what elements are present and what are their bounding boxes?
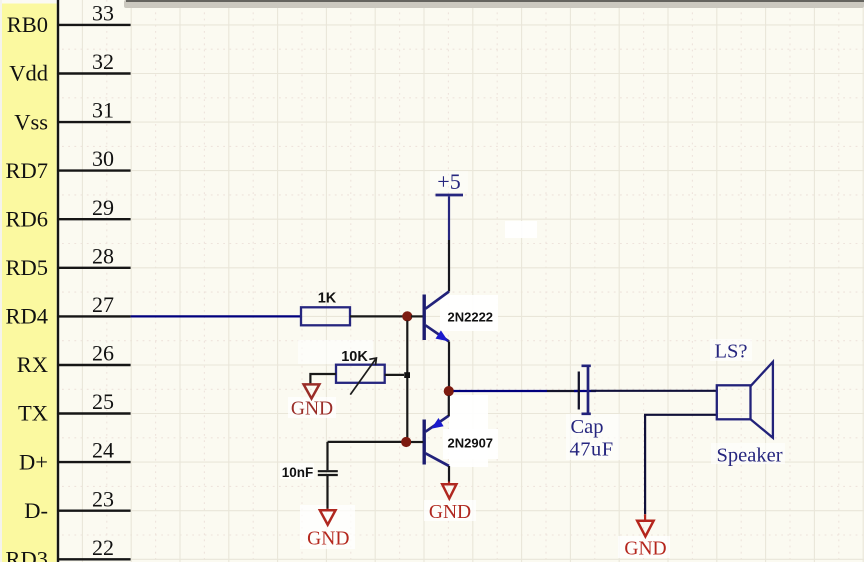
- svg-text:32: 32: [92, 49, 114, 74]
- pin 22 RD3: [5, 535, 130, 562]
- wire under C1 plates: [574, 390, 596, 392]
- IC U1 right border: [57, 0, 59, 562]
- ground GND (C2): [307, 509, 349, 550]
- svg-text:RD7: RD7: [5, 158, 48, 183]
- svg-text:RD5: RD5: [5, 255, 48, 280]
- svg-text:GND: GND: [291, 398, 333, 419]
- wire (lower segment, black): [448, 240, 450, 292]
- svg-text:+5: +5: [437, 169, 460, 194]
- svg-text:RX: RX: [17, 352, 48, 377]
- svg-text:23: 23: [92, 486, 114, 511]
- svg-text:LS?: LS?: [715, 340, 748, 362]
- svg-text:25: 25: [92, 389, 114, 414]
- svg-text:1K: 1K: [318, 291, 337, 307]
- capacitor C1 (Cap 47uF): [579, 366, 591, 414]
- resistor R1 body: [301, 307, 350, 325]
- capacitor C2 10nF: [318, 442, 338, 509]
- svg-text:10K: 10K: [341, 349, 368, 365]
- speaker LS1 symbol: [717, 362, 773, 438]
- pin 33 RB0: [7, 1, 131, 38]
- svg-text:Vss: Vss: [14, 109, 48, 134]
- svg-text:24: 24: [92, 438, 114, 463]
- ground GND (R2): [291, 384, 333, 419]
- IC U1 body (yellow): [2, 4, 57, 562]
- wire R2 left to GND: [310, 374, 336, 384]
- pin 28 RD5: [5, 243, 130, 280]
- svg-text:47uF: 47uF: [570, 438, 614, 460]
- wire node C to capacitor C1: [454, 390, 548, 392]
- pin 23 D-: [24, 486, 130, 523]
- wire node A down to node B (base link): [406, 321, 408, 439]
- wire RD4 pin to R1: [131, 315, 301, 317]
- svg-text:30: 30: [92, 146, 114, 171]
- ground GND (speaker): [624, 514, 666, 559]
- svg-text:GND: GND: [307, 528, 349, 549]
- wire +5 to Q1 collector: [448, 196, 450, 240]
- svg-text:RB0: RB0: [7, 12, 48, 37]
- white erase patches: [280, 171, 785, 558]
- resistor R2 10K (variable): [336, 358, 385, 395]
- svg-text:GND: GND: [429, 502, 471, 523]
- wire R2 right to junction square: [385, 374, 404, 376]
- pin 29 RD6: [5, 195, 130, 232]
- svg-text:33: 33: [92, 1, 114, 26]
- svg-text:Cap: Cap: [571, 416, 604, 438]
- svg-text:Speaker: Speaker: [717, 444, 783, 466]
- svg-text:10nF: 10nF: [282, 465, 314, 480]
- svg-text:28: 28: [92, 243, 114, 268]
- svg-text:26: 26: [92, 341, 114, 366]
- node B junction dot (Q2 base): [401, 437, 411, 447]
- pin 27 RD4: [5, 292, 130, 329]
- transistor Q1 2N2222 (NPN): [424, 292, 449, 342]
- wire R1 to node A: [350, 315, 403, 317]
- svg-text:RD3: RD3: [5, 547, 48, 562]
- wire Q1 emitter to node C: [448, 342, 450, 387]
- svg-text:2N2222: 2N2222: [448, 310, 494, 325]
- wire node A to Q1 base: [411, 315, 423, 317]
- pin 26 RX: [17, 341, 131, 378]
- svg-text:TX: TX: [18, 401, 48, 426]
- wire Q2 collector down: [448, 466, 450, 482]
- svg-text:D-: D-: [24, 498, 48, 523]
- svg-text:31: 31: [92, 98, 114, 123]
- svg-text:2N2907: 2N2907: [448, 436, 494, 451]
- pin 25 TX: [18, 389, 131, 426]
- svg-text:Vdd: Vdd: [9, 61, 48, 86]
- svg-text:RD4: RD4: [5, 304, 48, 329]
- power +5: [436, 169, 464, 195]
- pin 31 Vss: [14, 98, 130, 135]
- wire node B to Q2 base: [411, 441, 423, 443]
- svg-text:RD6: RD6: [5, 206, 48, 231]
- wire speaker pin 2 to GND drop: [645, 415, 717, 515]
- wire C1 to speaker pin 1: [591, 390, 717, 392]
- svg-text:GND: GND: [624, 538, 666, 559]
- pin 30 RD7: [5, 146, 130, 183]
- node A junction dot (Q1 base): [402, 311, 412, 321]
- svg-text:D+: D+: [19, 449, 48, 474]
- node C junction dot (output): [444, 386, 454, 396]
- pin 32 Vdd: [9, 49, 130, 86]
- top window bar: [124, 0, 864, 8]
- svg-text:29: 29: [92, 195, 114, 220]
- svg-text:27: 27: [92, 292, 114, 317]
- transistor Q2 2N2907 (PNP): [424, 416, 449, 467]
- junction square (10K tap): [404, 372, 410, 378]
- wire 10nF elbow to node B: [328, 441, 402, 443]
- ground GND (Q2 collector): [429, 482, 471, 523]
- pin 24 D+: [19, 438, 131, 475]
- wire node C down to Q2 emitter: [448, 396, 450, 417]
- svg-text:22: 22: [92, 535, 114, 560]
